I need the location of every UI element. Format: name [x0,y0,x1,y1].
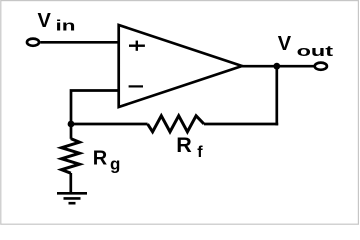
node inverting input junction [68,121,75,128]
node output junction [273,63,280,70]
wire op-amp output [242,65,314,68]
wire Rg to ground [69,173,72,193]
terminal Vin [27,39,39,46]
wire feedback horizontal right [204,123,278,126]
plus marking [129,41,145,51]
svg-text:R: R [93,148,108,170]
wire junction to Rg [70,124,73,139]
svg-text:R: R [176,133,192,157]
terminal Vout [315,63,327,70]
svg-text:V: V [278,33,292,55]
svg-text:V: V [38,10,52,32]
label Rf [176,133,203,161]
wire feedback vertical right [275,66,278,125]
svg-text:out: out [297,43,334,60]
resistor Rg [62,139,80,174]
minus marking [129,85,143,87]
wire minus input [71,91,118,125]
wire Vin to op-amp + input [40,41,118,44]
svg-text:in: in [56,18,76,35]
op-amp U1 [119,25,242,107]
resistor Rf [148,116,204,132]
svg-text:f: f [197,144,203,161]
label Rg [93,148,121,174]
svg-text:g: g [110,155,120,174]
label Vout [278,33,333,60]
ground [57,193,87,203]
wire feedback horizontal left [71,123,148,126]
label Vin [38,10,76,35]
